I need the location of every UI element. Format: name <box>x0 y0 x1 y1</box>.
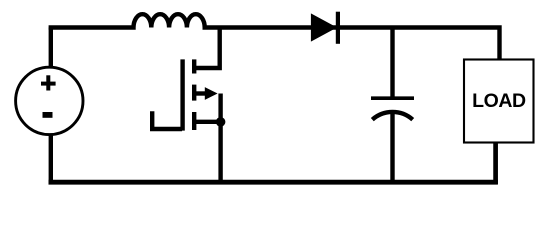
svg-text:LOAD: LOAD <box>472 90 526 112</box>
